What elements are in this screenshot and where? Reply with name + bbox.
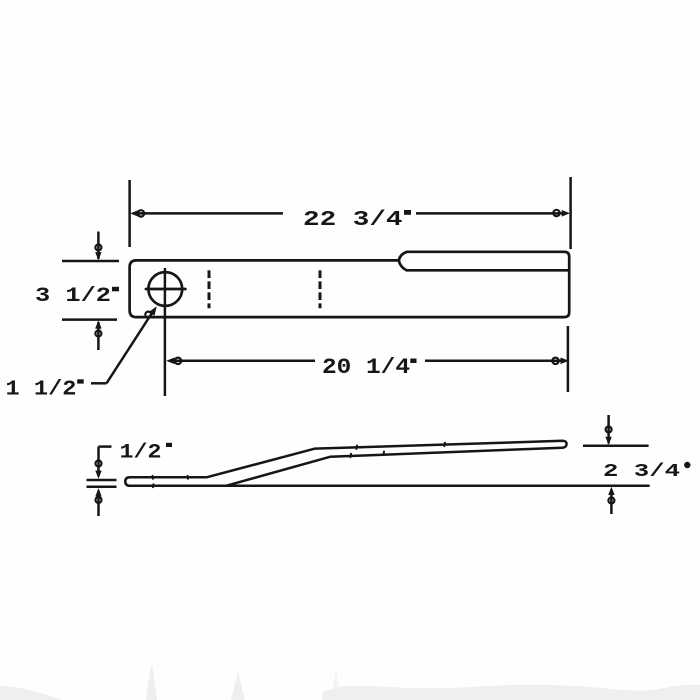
svg-text:3 1/2: 3 1/2: [35, 285, 111, 308]
svg-text:22 3/4: 22 3/4: [303, 209, 403, 232]
svg-text:1/2: 1/2: [120, 441, 162, 464]
svg-text:1 1/2: 1 1/2: [6, 378, 77, 402]
svg-text:2 3/4: 2 3/4: [603, 461, 680, 482]
svg-text:20 1/4: 20 1/4: [322, 355, 410, 380]
